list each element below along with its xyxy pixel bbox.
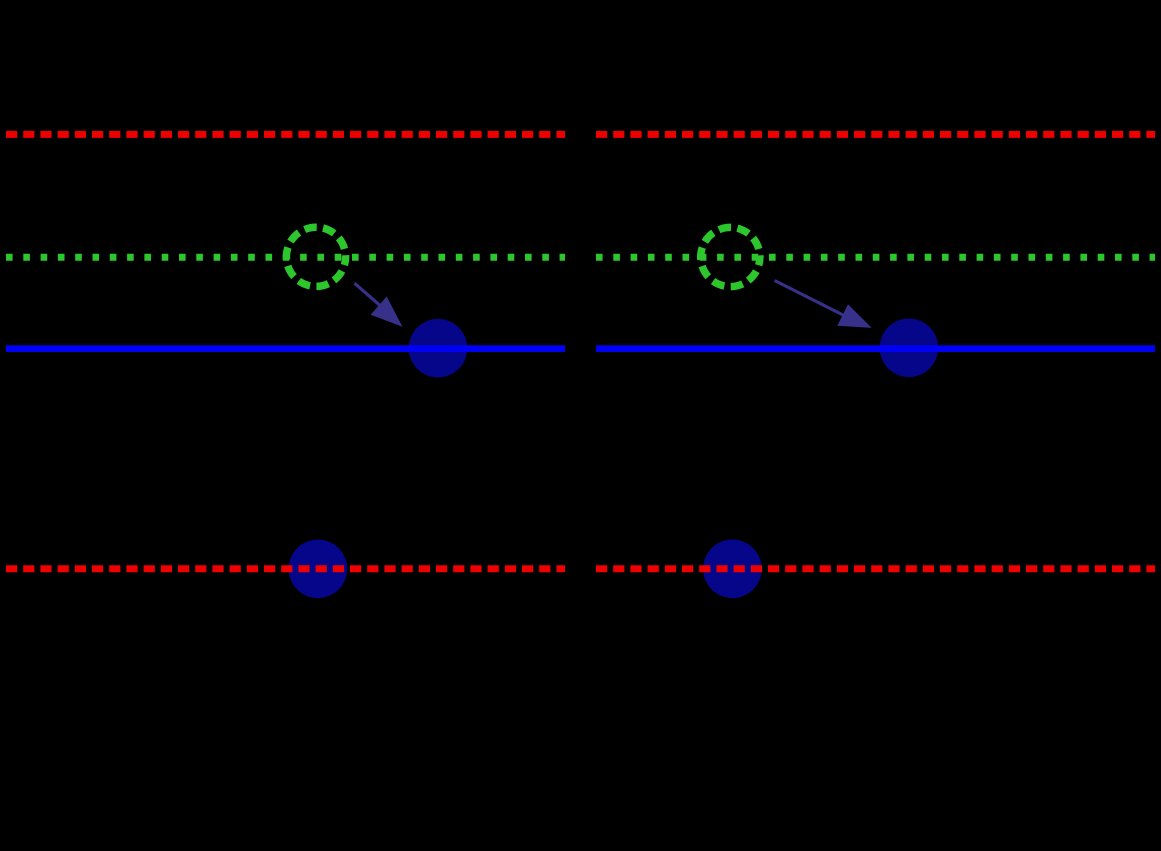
ball on bottom red level (right panel) — [703, 540, 762, 599]
ball on bottom red level (left panel) — [289, 540, 348, 599]
green dotted level line (left panel) — [6, 254, 565, 261]
transition arrow shaft (left panel) — [355, 283, 382, 307]
ball on blue level (left panel) — [409, 319, 468, 378]
blue solid level line (right panel) — [596, 345, 1155, 352]
green dashed hole circle (right panel) — [701, 227, 760, 286]
bottom red dashed level line (left panel) — [6, 565, 565, 572]
green dashed hole circle (left panel) — [286, 227, 345, 286]
transition arrow shaft (right panel) — [775, 281, 844, 316]
bottom red dashed level line (right panel) — [596, 565, 1155, 572]
transition arrow head (right panel) — [837, 304, 871, 328]
green dotted level line (right panel) — [596, 254, 1155, 261]
top red dashed level line (right panel) — [596, 131, 1155, 138]
ball on blue level (right panel) — [880, 319, 939, 378]
transition arrow head (left panel) — [371, 297, 403, 327]
top red dashed level line (left panel) — [6, 131, 565, 138]
blue solid level line (left panel) — [6, 345, 565, 352]
